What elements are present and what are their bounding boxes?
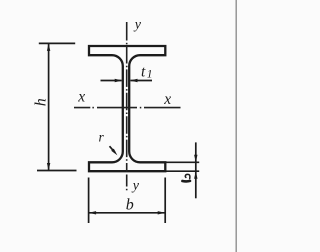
svg-text:t: t xyxy=(141,63,146,80)
svg-text:h: h xyxy=(32,98,49,106)
svg-text:y: y xyxy=(131,178,140,193)
svg-text:r: r xyxy=(99,130,105,145)
svg-text:x: x xyxy=(77,89,85,106)
svg-text:x: x xyxy=(163,91,171,108)
svg-text:1: 1 xyxy=(147,69,153,81)
svg-text:b: b xyxy=(126,196,134,213)
svg-text:y: y xyxy=(133,17,142,32)
